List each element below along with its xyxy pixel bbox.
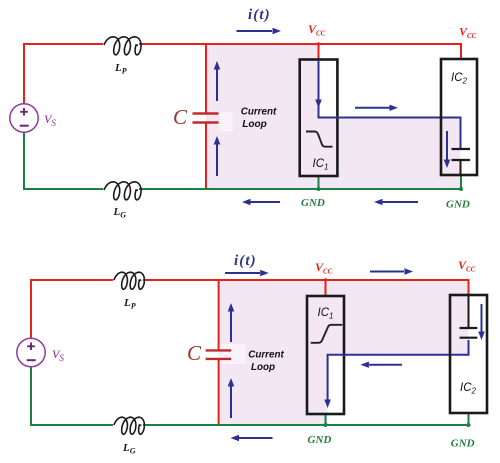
svg-text:Loop: Loop bbox=[251, 361, 276, 373]
arrow: current left between IC1 and IC2 (bottom circuit) bbox=[360, 362, 402, 368]
label GND at IC2 (bottom circuit) bbox=[451, 438, 475, 450]
inductor LG coil (bottom circuit) bbox=[114, 417, 144, 434]
wire: top red wire to IC2 (bottom circuit) bbox=[143, 280, 469, 295]
label Current Loop (bottom circuit) bbox=[248, 349, 284, 374]
wire: green left rail and bottom wire (top circuit) bbox=[24, 132, 103, 189]
arrow: i(t) direction (top circuit) bbox=[237, 28, 282, 34]
arrow: return current left (left, top circuit) bbox=[242, 199, 280, 205]
wire: top red rail and left rail (bottom circuit) bbox=[31, 280, 113, 340]
wire: green bottom wire right part (top circuit) bbox=[139, 188, 461, 190]
capacitor C plates (top circuit) bbox=[193, 114, 219, 123]
label IC1 (top circuit) bbox=[313, 158, 329, 172]
inductor LP coil (top circuit) bbox=[104, 37, 141, 55]
current loop shaded region (top circuit) bbox=[206, 44, 461, 189]
svg-text:VS: VS bbox=[52, 347, 64, 363]
arrow: current down inside IC1 (bottom circuit) bbox=[324, 400, 331, 409]
node: green junction under IC1 (top circuit) bbox=[317, 187, 321, 191]
svg-text:i(t): i(t) bbox=[234, 253, 257, 269]
arrow: return current left (bottom circuit) bbox=[231, 435, 273, 441]
wire: blue current path IC2 to IC1 (bottom circuit) bbox=[328, 340, 469, 400]
label VS (bottom circuit) bbox=[52, 347, 64, 363]
arrow: loop current up (upper, top circuit) bbox=[214, 61, 221, 101]
node: junction at Vcc/IC1 (top circuit) bbox=[317, 42, 320, 45]
wire: green bottom wire right part (bottom circuit) bbox=[143, 424, 469, 426]
arrow: current down inside IC2 (top circuit) bbox=[444, 131, 451, 168]
svg-text:LP: LP bbox=[114, 62, 127, 76]
IC1 box (top circuit) bbox=[300, 60, 338, 177]
arrow: i(t) direction (bottom circuit) bbox=[225, 270, 269, 276]
node: green junction under IC2 (bottom circuit) bbox=[467, 423, 471, 427]
svg-text:Loop: Loop bbox=[242, 118, 267, 130]
wire: green stub under IC1 (bottom circuit) bbox=[325, 414, 327, 425]
label GND at IC2 (top circuit) bbox=[446, 199, 470, 211]
arrow: current right between IC1 and IC2 (top circuit) bbox=[355, 105, 398, 111]
svg-text:C: C bbox=[173, 105, 188, 129]
svg-text:VCC: VCC bbox=[315, 260, 333, 276]
inductor LG coil (top circuit) bbox=[104, 182, 141, 200]
arrow: loop current up (lower, bottom circuit) bbox=[228, 378, 235, 418]
label LP (top circuit) bbox=[114, 62, 127, 76]
svg-text:C: C bbox=[187, 341, 202, 365]
capacitor C background patch (top) bbox=[220, 112, 233, 132]
arrow: current right on Vcc rail (bottom circuit) bbox=[370, 268, 413, 274]
arrow: loop current up (lower, top circuit) bbox=[214, 136, 221, 176]
decoupling capacitor inside IC2 (bottom circuit) bbox=[460, 296, 478, 338]
svg-text:IC2: IC2 bbox=[451, 72, 468, 86]
wire: green stub under IC1 (top circuit) bbox=[318, 176, 320, 189]
arrow: current down inside IC2 (bottom circuit) bbox=[478, 304, 485, 340]
svg-text:IC2: IC2 bbox=[460, 382, 477, 396]
label VCC at IC1 (top circuit) bbox=[308, 22, 326, 38]
label LP (bottom circuit) bbox=[123, 297, 136, 311]
node: junction at Vcc/IC1 (bottom circuit) bbox=[324, 278, 327, 281]
svg-text:GND: GND bbox=[451, 438, 475, 450]
label C (top circuit) bbox=[173, 105, 188, 129]
IC1 falling edge symbol (top circuit) bbox=[306, 132, 333, 147]
wire: green left rail and bottom wire (bottom circuit) bbox=[31, 366, 113, 425]
svg-text:VCC: VCC bbox=[458, 258, 476, 274]
svg-text:LP: LP bbox=[123, 297, 136, 311]
label i(t) (top circuit) bbox=[248, 7, 271, 23]
wire: top red wire to IC2 (top circuit) bbox=[139, 44, 461, 60]
wire: capacitor bottom branch (bottom circuit) bbox=[218, 359, 220, 425]
voltage source VS (bottom circuit) bbox=[17, 338, 45, 366]
node: green junction under IC2 (top circuit) bbox=[459, 187, 463, 191]
wire: green stub under IC2 (bottom circuit) bbox=[468, 413, 470, 425]
svg-text:LG: LG bbox=[113, 206, 127, 220]
capacitor C plates (bottom circuit) bbox=[206, 350, 232, 359]
arrow: current down inside IC1 (top circuit) bbox=[315, 100, 322, 109]
IC1 box (bottom circuit) bbox=[307, 296, 344, 414]
label GND at IC1 (bottom circuit) bbox=[308, 434, 332, 446]
label IC1 (bottom circuit) bbox=[318, 307, 334, 321]
label VS (top circuit) bbox=[44, 112, 56, 128]
wire: red drop into IC1 (top circuit) bbox=[318, 44, 320, 60]
label GND at IC1 (top circuit) bbox=[301, 197, 325, 209]
label VCC at IC1 (bottom circuit) bbox=[315, 260, 333, 276]
svg-text:VS: VS bbox=[44, 112, 56, 128]
svg-text:GND: GND bbox=[301, 197, 325, 209]
label VCC at IC2 (bottom circuit) bbox=[458, 258, 476, 274]
wire: capacitor bottom branch (top circuit) bbox=[205, 123, 207, 189]
wire: blue current path IC1 to IC2 (top circuit) bbox=[319, 60, 461, 149]
voltage source VS (top circuit) bbox=[10, 104, 38, 132]
svg-text:GND: GND bbox=[308, 434, 332, 446]
label LG (top circuit) bbox=[113, 206, 127, 220]
decoupling capacitor inside IC2 (top circuit) bbox=[452, 149, 471, 175]
svg-text:Current: Current bbox=[241, 106, 277, 118]
label i(t) (bottom circuit) bbox=[234, 253, 257, 269]
svg-text:VCC: VCC bbox=[459, 25, 477, 41]
wire: red drop into IC1 (bottom circuit) bbox=[325, 280, 327, 296]
svg-text:LG: LG bbox=[122, 442, 136, 456]
IC1 rising edge symbol (bottom circuit) bbox=[311, 325, 343, 343]
capacitor C background patch (bottom) bbox=[220, 344, 246, 364]
label C (bottom circuit) bbox=[187, 341, 202, 365]
svg-text:i(t): i(t) bbox=[248, 7, 271, 23]
svg-text:Current: Current bbox=[248, 349, 284, 361]
wire: top red rail and left rail (top circuit) bbox=[24, 44, 103, 104]
arrow: return current left (right, top circuit) bbox=[374, 199, 418, 205]
label IC2 (top circuit) bbox=[451, 72, 468, 86]
svg-text:GND: GND bbox=[446, 199, 470, 211]
label IC2 (bottom circuit) bbox=[460, 382, 477, 396]
IC2 box (bottom circuit) bbox=[450, 295, 487, 413]
label VCC at IC2 (top circuit) bbox=[459, 25, 477, 41]
IC2 box (top circuit) bbox=[441, 59, 477, 175]
wire: green stub under IC2 (top circuit) bbox=[460, 175, 462, 189]
inductor LP coil (bottom circuit) bbox=[114, 272, 144, 289]
arrow: loop current up (upper, bottom circuit) bbox=[228, 303, 235, 342]
label Current Loop (top circuit) bbox=[241, 106, 277, 131]
current loop shaded region (bottom circuit) bbox=[219, 280, 469, 425]
node: green junction under IC1 (bottom circuit) bbox=[324, 423, 328, 427]
wire: capacitor top branch (top circuit) bbox=[205, 44, 207, 113]
svg-text:VCC: VCC bbox=[308, 22, 326, 38]
wire: capacitor top branch (bottom circuit) bbox=[218, 280, 220, 350]
label LG (bottom circuit) bbox=[122, 442, 136, 456]
